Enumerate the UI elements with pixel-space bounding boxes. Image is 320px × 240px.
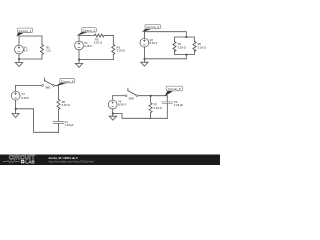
- svg-text:9.18 V: 9.18 V: [21, 96, 29, 100]
- svg-text:Circuit_4: Circuit_4: [61, 79, 74, 83]
- junction node at source bottom circuit 3: [144, 58, 146, 60]
- svg-text:SW1: SW1: [45, 87, 51, 90]
- resistor R6: [57, 86, 71, 122]
- svg-text:9 V: 9 V: [24, 49, 28, 53]
- svg-text:6.18 Ω: 6.18 Ω: [154, 106, 163, 110]
- CircuitLab logo plus box: [21, 160, 24, 163]
- CircuitLab logo CIRCUIT text: [9, 156, 35, 162]
- ground circuit 3: [141, 59, 148, 66]
- resistor R4: [173, 42, 187, 52]
- node tag Circuit_2: [76, 28, 96, 36]
- wire top bus circuit 3: [175, 37, 195, 42]
- voltage source V3: [140, 32, 158, 59]
- voltage source V4: [11, 86, 29, 109]
- footer title text: [49, 156, 79, 160]
- wire top rail circuit 5: [113, 95, 125, 97]
- svg-text:http://circuitlab.com/c/dmc/29: http://circuitlab.com/c/dmc/29/3a2vha/: [49, 160, 94, 164]
- voltage source V2: [75, 36, 93, 60]
- switch SW1: [42, 78, 55, 90]
- wire bottom rail circuit 1: [19, 58, 42, 60]
- svg-text:Circuit_5: Circuit_5: [168, 87, 181, 91]
- svg-text:droste_M / 1003 Lab 0: droste_M / 1003 Lab 0: [49, 156, 79, 160]
- node tag Circuit_3: [142, 24, 161, 32]
- junction node top bus circuit 3: [186, 36, 188, 38]
- node tag Circuit_1: [16, 28, 32, 36]
- wire bottom return circuit 4: [16, 109, 59, 133]
- wire switch to corner circuit 4: [55, 85, 59, 87]
- CircuitLab logo resistor zigzag: [3, 161, 19, 163]
- resistor R1: [40, 36, 51, 59]
- resistor R2: [94, 34, 114, 44]
- svg-text:3.18 Ω: 3.18 Ω: [117, 49, 126, 53]
- ground circuit 1: [15, 59, 22, 67]
- svg-text:V4: V4: [21, 92, 25, 96]
- resistor R5: [193, 42, 207, 52]
- svg-text:6.18 Ω: 6.18 Ω: [62, 103, 71, 107]
- ground circuit 2: [75, 60, 82, 68]
- wire top rail circuit 4: [16, 85, 42, 87]
- junction node circuit 5: [112, 113, 114, 115]
- junction node top circuit 5: [150, 95, 152, 97]
- wire switch to cap corner circuit 5: [138, 95, 167, 97]
- svg-text:1.18 µF: 1.18 µF: [65, 123, 75, 127]
- svg-text:2.18 Ω: 2.18 Ω: [178, 45, 187, 49]
- wire bottom bus circuit 3: [175, 51, 195, 55]
- voltage source V5: [108, 96, 126, 114]
- resistor R7: [149, 96, 163, 119]
- voltage source V1: [15, 36, 28, 59]
- capacitor C2: [162, 96, 183, 119]
- junction node circuit 1: [18, 58, 20, 60]
- wire bottom feed circuit 3: [144, 55, 186, 59]
- svg-text:9.18 V: 9.18 V: [118, 103, 126, 107]
- CircuitLab logo LAB text: [25, 160, 35, 165]
- wire top rail circuit 1: [19, 35, 42, 37]
- junction node circuit 4: [15, 108, 17, 110]
- svg-text:SW2: SW2: [129, 98, 135, 101]
- svg-text:Circuit_3: Circuit_3: [146, 25, 159, 29]
- svg-text:LAB: LAB: [25, 160, 35, 165]
- svg-text:1.18 µF: 1.18 µF: [174, 103, 184, 107]
- junction node circuit 2: [78, 59, 80, 61]
- svg-text:Circuit_1: Circuit_1: [19, 29, 32, 33]
- svg-text:9.18 V: 9.18 V: [150, 41, 158, 45]
- wire top rail circuit 2: [79, 35, 95, 37]
- svg-text:Circuit_2: Circuit_2: [83, 29, 96, 33]
- node tag Circuit_4: [56, 79, 75, 86]
- footer url text: [49, 160, 94, 164]
- capacitor C1: [53, 120, 74, 132]
- svg-text:9.18 V: 9.18 V: [84, 44, 92, 48]
- wire bottom rail circuit 5: [113, 113, 168, 118]
- wire top feed circuit 3: [144, 32, 186, 37]
- footer bar background: [0, 155, 220, 166]
- resistor R3: [112, 36, 126, 60]
- svg-text:3.18 Ω: 3.18 Ω: [198, 45, 207, 49]
- junction node bottom bus circuit 3: [186, 54, 188, 56]
- node tag Circuit_5: [165, 86, 183, 96]
- ground circuit 4: [12, 109, 19, 118]
- svg-text:2.18 Ω: 2.18 Ω: [94, 40, 103, 44]
- switch SW2: [125, 88, 138, 100]
- ground circuit 5: [109, 113, 116, 120]
- wire bottom rail circuit 2: [79, 59, 113, 61]
